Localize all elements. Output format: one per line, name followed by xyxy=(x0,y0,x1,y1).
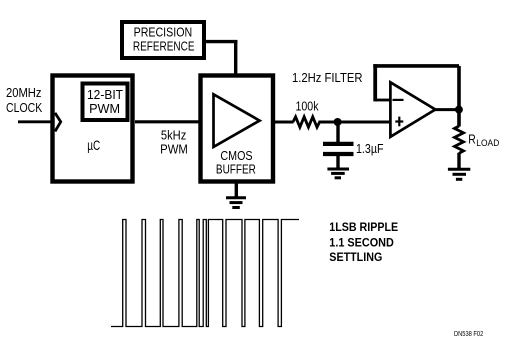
svg-text:1.3µF: 1.3µF xyxy=(356,141,384,156)
svg-text:20MHz: 20MHz xyxy=(6,85,42,100)
svg-text:PWM: PWM xyxy=(160,142,188,157)
svg-text:DN538 F02: DN538 F02 xyxy=(454,331,483,338)
svg-text:CLOCK: CLOCK xyxy=(6,100,43,115)
svg-text:SETTLING: SETTLING xyxy=(329,250,382,264)
svg-text:12-BIT: 12-BIT xyxy=(87,87,123,102)
svg-text:1.2Hz FILTER: 1.2Hz FILTER xyxy=(292,70,363,85)
svg-text:100k: 100k xyxy=(296,98,319,113)
svg-text:R: R xyxy=(468,131,476,146)
svg-text:LOAD: LOAD xyxy=(476,138,499,149)
svg-text:PWM: PWM xyxy=(89,101,120,116)
svg-text:1LSB RIPPLE: 1LSB RIPPLE xyxy=(329,220,398,234)
svg-text:1.1 SECOND: 1.1 SECOND xyxy=(329,235,394,249)
svg-text:5kHz: 5kHz xyxy=(161,127,186,142)
svg-text:µC: µC xyxy=(87,137,100,153)
svg-text:BUFFER: BUFFER xyxy=(216,162,256,177)
svg-text:REFERENCE: REFERENCE xyxy=(133,38,195,53)
